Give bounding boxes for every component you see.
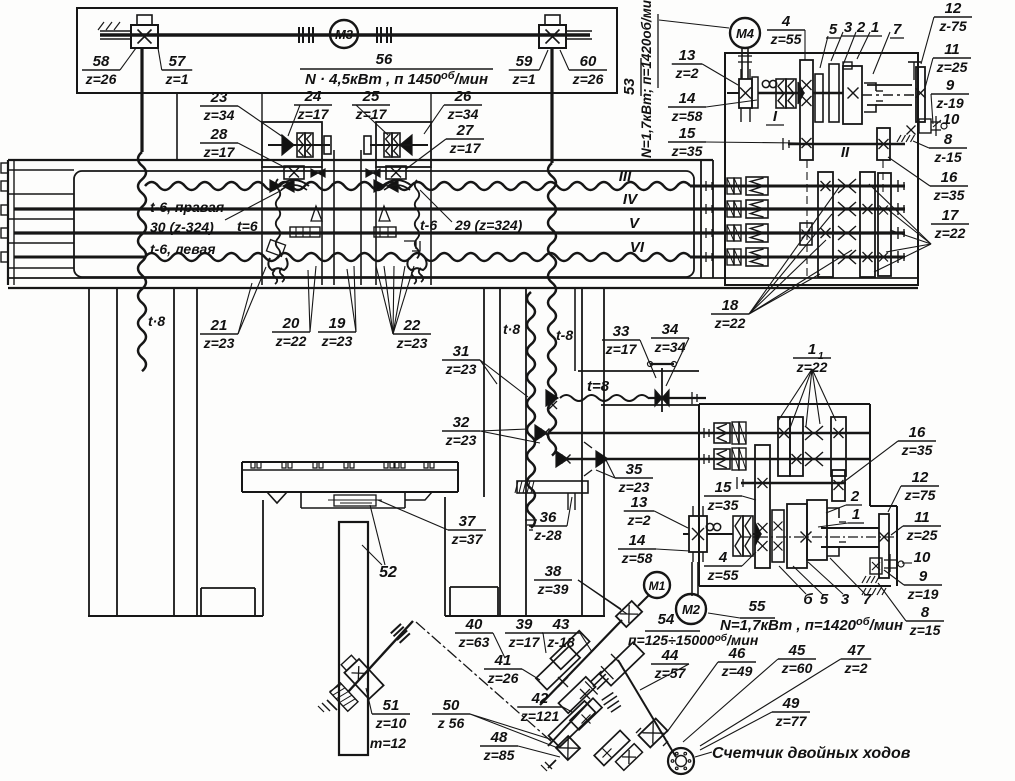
svg-text:10: 10 — [943, 111, 960, 128]
svg-text:50: 50 — [443, 697, 460, 714]
svg-text:30 (z-324): 30 (z-324) — [150, 219, 214, 235]
svg-text:33: 33 — [613, 323, 630, 340]
svg-text:z=37: z=37 — [451, 531, 484, 547]
svg-text:z=19: z=19 — [907, 586, 939, 602]
svg-text:z-15: z-15 — [933, 149, 961, 165]
svg-text:t=8: t=8 — [587, 378, 610, 395]
svg-text:z=34: z=34 — [447, 106, 479, 122]
svg-text:55: 55 — [749, 598, 766, 615]
svg-text:t·8: t·8 — [148, 313, 165, 329]
svg-text:z-18: z-18 — [546, 634, 574, 650]
svg-text:41: 41 — [494, 652, 512, 669]
svg-text:z=23: z=23 — [618, 479, 650, 495]
svg-text:m=12: m=12 — [370, 735, 406, 751]
svg-text:53: 53 — [621, 78, 638, 95]
svg-text:1: 1 — [871, 19, 879, 36]
svg-text:z=58: z=58 — [621, 550, 653, 566]
svg-text:57: 57 — [169, 53, 186, 70]
svg-text:2: 2 — [850, 488, 860, 505]
svg-text:35: 35 — [626, 461, 643, 478]
svg-text:z=35: z=35 — [671, 143, 703, 159]
svg-text:13: 13 — [631, 494, 648, 511]
svg-text:z=2: z=2 — [627, 512, 651, 528]
svg-text:9: 9 — [946, 77, 955, 94]
svg-text:z=49: z=49 — [721, 663, 753, 679]
svg-text:z=35: z=35 — [707, 497, 739, 513]
svg-text:z=17: z=17 — [605, 341, 638, 357]
svg-text:11: 11 — [914, 509, 930, 526]
svg-text:z=55: z=55 — [770, 31, 802, 47]
svg-text:t-8: t-8 — [556, 327, 573, 343]
svg-text:z=34: z=34 — [203, 107, 235, 123]
svg-text:z-19: z-19 — [935, 95, 963, 111]
svg-text:38: 38 — [545, 563, 562, 580]
svg-text:z=34: z=34 — [654, 339, 686, 355]
svg-text:z=2: z=2 — [844, 660, 868, 676]
svg-text:2: 2 — [856, 19, 866, 36]
svg-text:1: 1 — [808, 341, 816, 358]
svg-text:19: 19 — [329, 315, 346, 332]
svg-text:t-6, левая: t-6, левая — [150, 241, 216, 257]
svg-text:z=23: z=23 — [396, 335, 428, 351]
svg-text:III: III — [619, 168, 632, 185]
svg-text:44: 44 — [661, 647, 679, 664]
svg-text:39: 39 — [516, 616, 533, 633]
svg-text:12: 12 — [945, 0, 962, 17]
svg-text:27: 27 — [456, 122, 474, 139]
svg-text:51: 51 — [383, 697, 400, 714]
svg-text:17: 17 — [942, 207, 959, 224]
svg-text:40: 40 — [465, 616, 483, 633]
svg-text:II: II — [841, 144, 850, 161]
svg-text:45: 45 — [788, 642, 806, 659]
svg-text:4: 4 — [781, 13, 791, 30]
svg-text:М1: М1 — [649, 579, 666, 593]
svg-text:z=23: z=23 — [321, 333, 353, 349]
svg-text:z 56: z 56 — [437, 715, 465, 731]
svg-text:z=26: z=26 — [85, 71, 117, 87]
svg-text:10: 10 — [914, 549, 931, 566]
svg-text:VI: VI — [630, 239, 645, 256]
svg-text:7: 7 — [893, 21, 902, 38]
svg-text:42: 42 — [531, 690, 549, 707]
svg-text:z=25: z=25 — [936, 59, 968, 75]
svg-text:z=23: z=23 — [445, 432, 477, 448]
svg-text:23: 23 — [210, 89, 228, 106]
svg-text:z=63: z=63 — [458, 634, 490, 650]
svg-text:14: 14 — [629, 532, 646, 549]
svg-text:14: 14 — [679, 90, 696, 107]
svg-text:t-6, правая: t-6, правая — [150, 199, 224, 215]
svg-text:59: 59 — [516, 53, 533, 70]
svg-text:z=22: z=22 — [275, 333, 307, 349]
svg-text:z=17: z=17 — [297, 106, 330, 122]
svg-text:13: 13 — [679, 47, 696, 64]
svg-text:z=15: z=15 — [909, 622, 941, 638]
svg-text:52: 52 — [379, 564, 397, 581]
svg-text:z=55: z=55 — [707, 567, 739, 583]
svg-text:z=17: z=17 — [203, 144, 236, 160]
svg-text:М3: М3 — [335, 27, 354, 42]
svg-text:z=10: z=10 — [375, 715, 407, 731]
svg-text:z=1: z=1 — [512, 71, 536, 87]
svg-text:z-28: z-28 — [533, 527, 561, 543]
svg-text:49: 49 — [782, 695, 800, 712]
svg-text:z=1: z=1 — [165, 71, 189, 87]
svg-text:21: 21 — [210, 317, 228, 334]
svg-text:26: 26 — [454, 88, 472, 105]
svg-text:М2: М2 — [682, 602, 701, 617]
svg-text:28: 28 — [210, 126, 228, 143]
svg-text:15: 15 — [679, 125, 696, 142]
svg-text:20: 20 — [282, 315, 300, 332]
svg-text:15: 15 — [715, 479, 732, 496]
svg-text:z=26: z=26 — [572, 71, 604, 87]
svg-text:29 (z=324): 29 (z=324) — [454, 217, 523, 233]
svg-text:z=121: z=121 — [520, 708, 560, 724]
svg-text:z=22: z=22 — [714, 315, 746, 331]
svg-text:z=17: z=17 — [508, 634, 541, 650]
svg-text:М4: М4 — [736, 26, 755, 41]
svg-text:t-6: t-6 — [420, 217, 437, 233]
svg-text:z=25: z=25 — [906, 527, 938, 543]
svg-text:12: 12 — [912, 469, 929, 486]
svg-text:8: 8 — [921, 604, 930, 621]
svg-text:22: 22 — [403, 317, 421, 334]
svg-text:54: 54 — [658, 611, 675, 628]
svg-text:z=23: z=23 — [445, 361, 477, 377]
svg-text:N · 4,5кВт , п 1450об/мин: N · 4,5кВт , п 1450об/мин — [305, 70, 488, 88]
svg-text:25: 25 — [362, 88, 380, 105]
svg-text:9: 9 — [919, 568, 928, 585]
svg-text:z=17: z=17 — [449, 140, 482, 156]
svg-text:4: 4 — [718, 549, 728, 566]
svg-text:43: 43 — [552, 616, 570, 633]
svg-text:IV: IV — [623, 191, 639, 208]
svg-text:16: 16 — [941, 169, 958, 186]
svg-text:32: 32 — [453, 414, 470, 431]
svg-text:z=35: z=35 — [933, 187, 965, 203]
svg-text:z=35: z=35 — [901, 442, 933, 458]
svg-text:z-75: z-75 — [938, 18, 966, 34]
svg-text:z=58: z=58 — [671, 108, 703, 124]
svg-text:24: 24 — [304, 88, 322, 105]
svg-text:1: 1 — [818, 351, 824, 362]
svg-text:60: 60 — [580, 53, 597, 70]
svg-text:z=60: z=60 — [781, 660, 813, 676]
svg-text:z=23: z=23 — [203, 335, 235, 351]
svg-text:t·8: t·8 — [503, 321, 520, 337]
svg-text:3: 3 — [844, 19, 853, 36]
svg-text:z=77: z=77 — [775, 713, 808, 729]
svg-text:z=39: z=39 — [537, 581, 569, 597]
svg-text:47: 47 — [847, 642, 865, 659]
svg-text:16: 16 — [909, 424, 926, 441]
svg-text:46: 46 — [728, 645, 746, 662]
svg-text:58: 58 — [93, 53, 110, 70]
svg-text:34: 34 — [662, 321, 679, 338]
svg-text:8: 8 — [944, 131, 953, 148]
svg-text:z=2: z=2 — [675, 65, 699, 81]
svg-text:z=26: z=26 — [487, 670, 519, 686]
svg-text:5: 5 — [829, 21, 838, 38]
svg-text:36: 36 — [540, 509, 557, 526]
svg-text:Счетчик двойных ходов: Счетчик двойных ходов — [712, 745, 911, 762]
svg-text:56: 56 — [376, 51, 393, 68]
svg-text:48: 48 — [490, 729, 508, 746]
svg-text:t=6: t=6 — [237, 218, 258, 234]
svg-text:1: 1 — [852, 506, 860, 523]
svg-text:z=85: z=85 — [483, 747, 515, 763]
svg-text:z=75: z=75 — [904, 487, 936, 503]
svg-text:18: 18 — [722, 297, 739, 314]
svg-text:37: 37 — [459, 513, 476, 530]
svg-text:31: 31 — [453, 343, 470, 360]
svg-text:z=22: z=22 — [934, 225, 966, 241]
svg-text:11: 11 — [944, 41, 960, 58]
